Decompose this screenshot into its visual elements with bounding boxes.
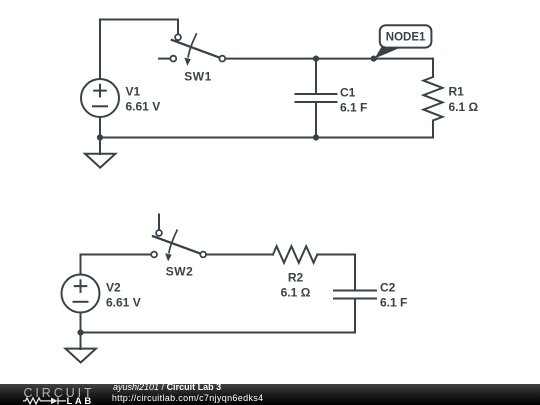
svg-text:6.61 V: 6.61 V [106, 296, 141, 310]
svg-text:6.1 Ω: 6.1 Ω [281, 286, 311, 300]
footer credits [113, 383, 263, 403]
wire R1 top lead [432, 59, 434, 77]
ground bottom [66, 349, 96, 363]
wire V1 top to SW1 pole [100, 20, 178, 80]
node junction dot C1 top [313, 56, 319, 62]
footer bar [0, 384, 540, 405]
svg-text:C2: C2 [380, 281, 396, 295]
ground top [85, 154, 115, 168]
node junction dot V1 bottom [97, 134, 103, 140]
voltage source V2 [62, 275, 100, 313]
svg-text:LAB: LAB [67, 396, 94, 405]
wire SW2 right contact to R2 [206, 254, 273, 256]
logo diode [51, 398, 58, 405]
svg-text:V1: V1 [126, 85, 141, 99]
wire V1 bottom to ground [99, 117, 101, 154]
wire V2 top to SW2 left contact [81, 255, 152, 275]
wire R2 to C2 top [317, 255, 355, 291]
wire V2 bottom to ground [80, 313, 82, 350]
svg-text:C1: C1 [340, 86, 356, 100]
resistor R1 [424, 77, 443, 121]
switch SW1 [159, 34, 225, 66]
svg-text:R1: R1 [449, 85, 465, 99]
capacitor C2 [334, 291, 376, 333]
wire bottom rail bottom circuit [81, 332, 356, 334]
svg-text:SW1: SW1 [184, 70, 212, 84]
svg-text:6.1 F: 6.1 F [340, 101, 367, 115]
svg-text:6.61 V: 6.61 V [126, 100, 161, 114]
node junction dot V2 bottom [77, 329, 83, 335]
node NODE1 flag [375, 25, 432, 58]
wire bottom rail top circuit [100, 137, 433, 139]
svg-text:SW2: SW2 [166, 265, 194, 279]
node NODE1 junction dot [371, 56, 377, 62]
svg-text:R2: R2 [288, 271, 304, 285]
svg-text:6.1 F: 6.1 F [380, 296, 407, 310]
CircuitLab logo [0, 384, 100, 405]
resistor R2 [273, 246, 317, 263]
wire SW1 right contact to R1 top corner [225, 58, 433, 60]
node junction dot C1 bottom [313, 134, 319, 140]
logo resistor squiggle [23, 398, 51, 404]
svg-text:NODE1: NODE1 [386, 32, 426, 44]
voltage source V1 [81, 79, 119, 117]
wire R1 bottom lead [432, 121, 434, 138]
switch SW2 [151, 215, 206, 262]
capacitor C1 [296, 59, 337, 138]
svg-text:6.1 Ω: 6.1 Ω [449, 100, 479, 114]
svg-text:V2: V2 [106, 281, 121, 295]
